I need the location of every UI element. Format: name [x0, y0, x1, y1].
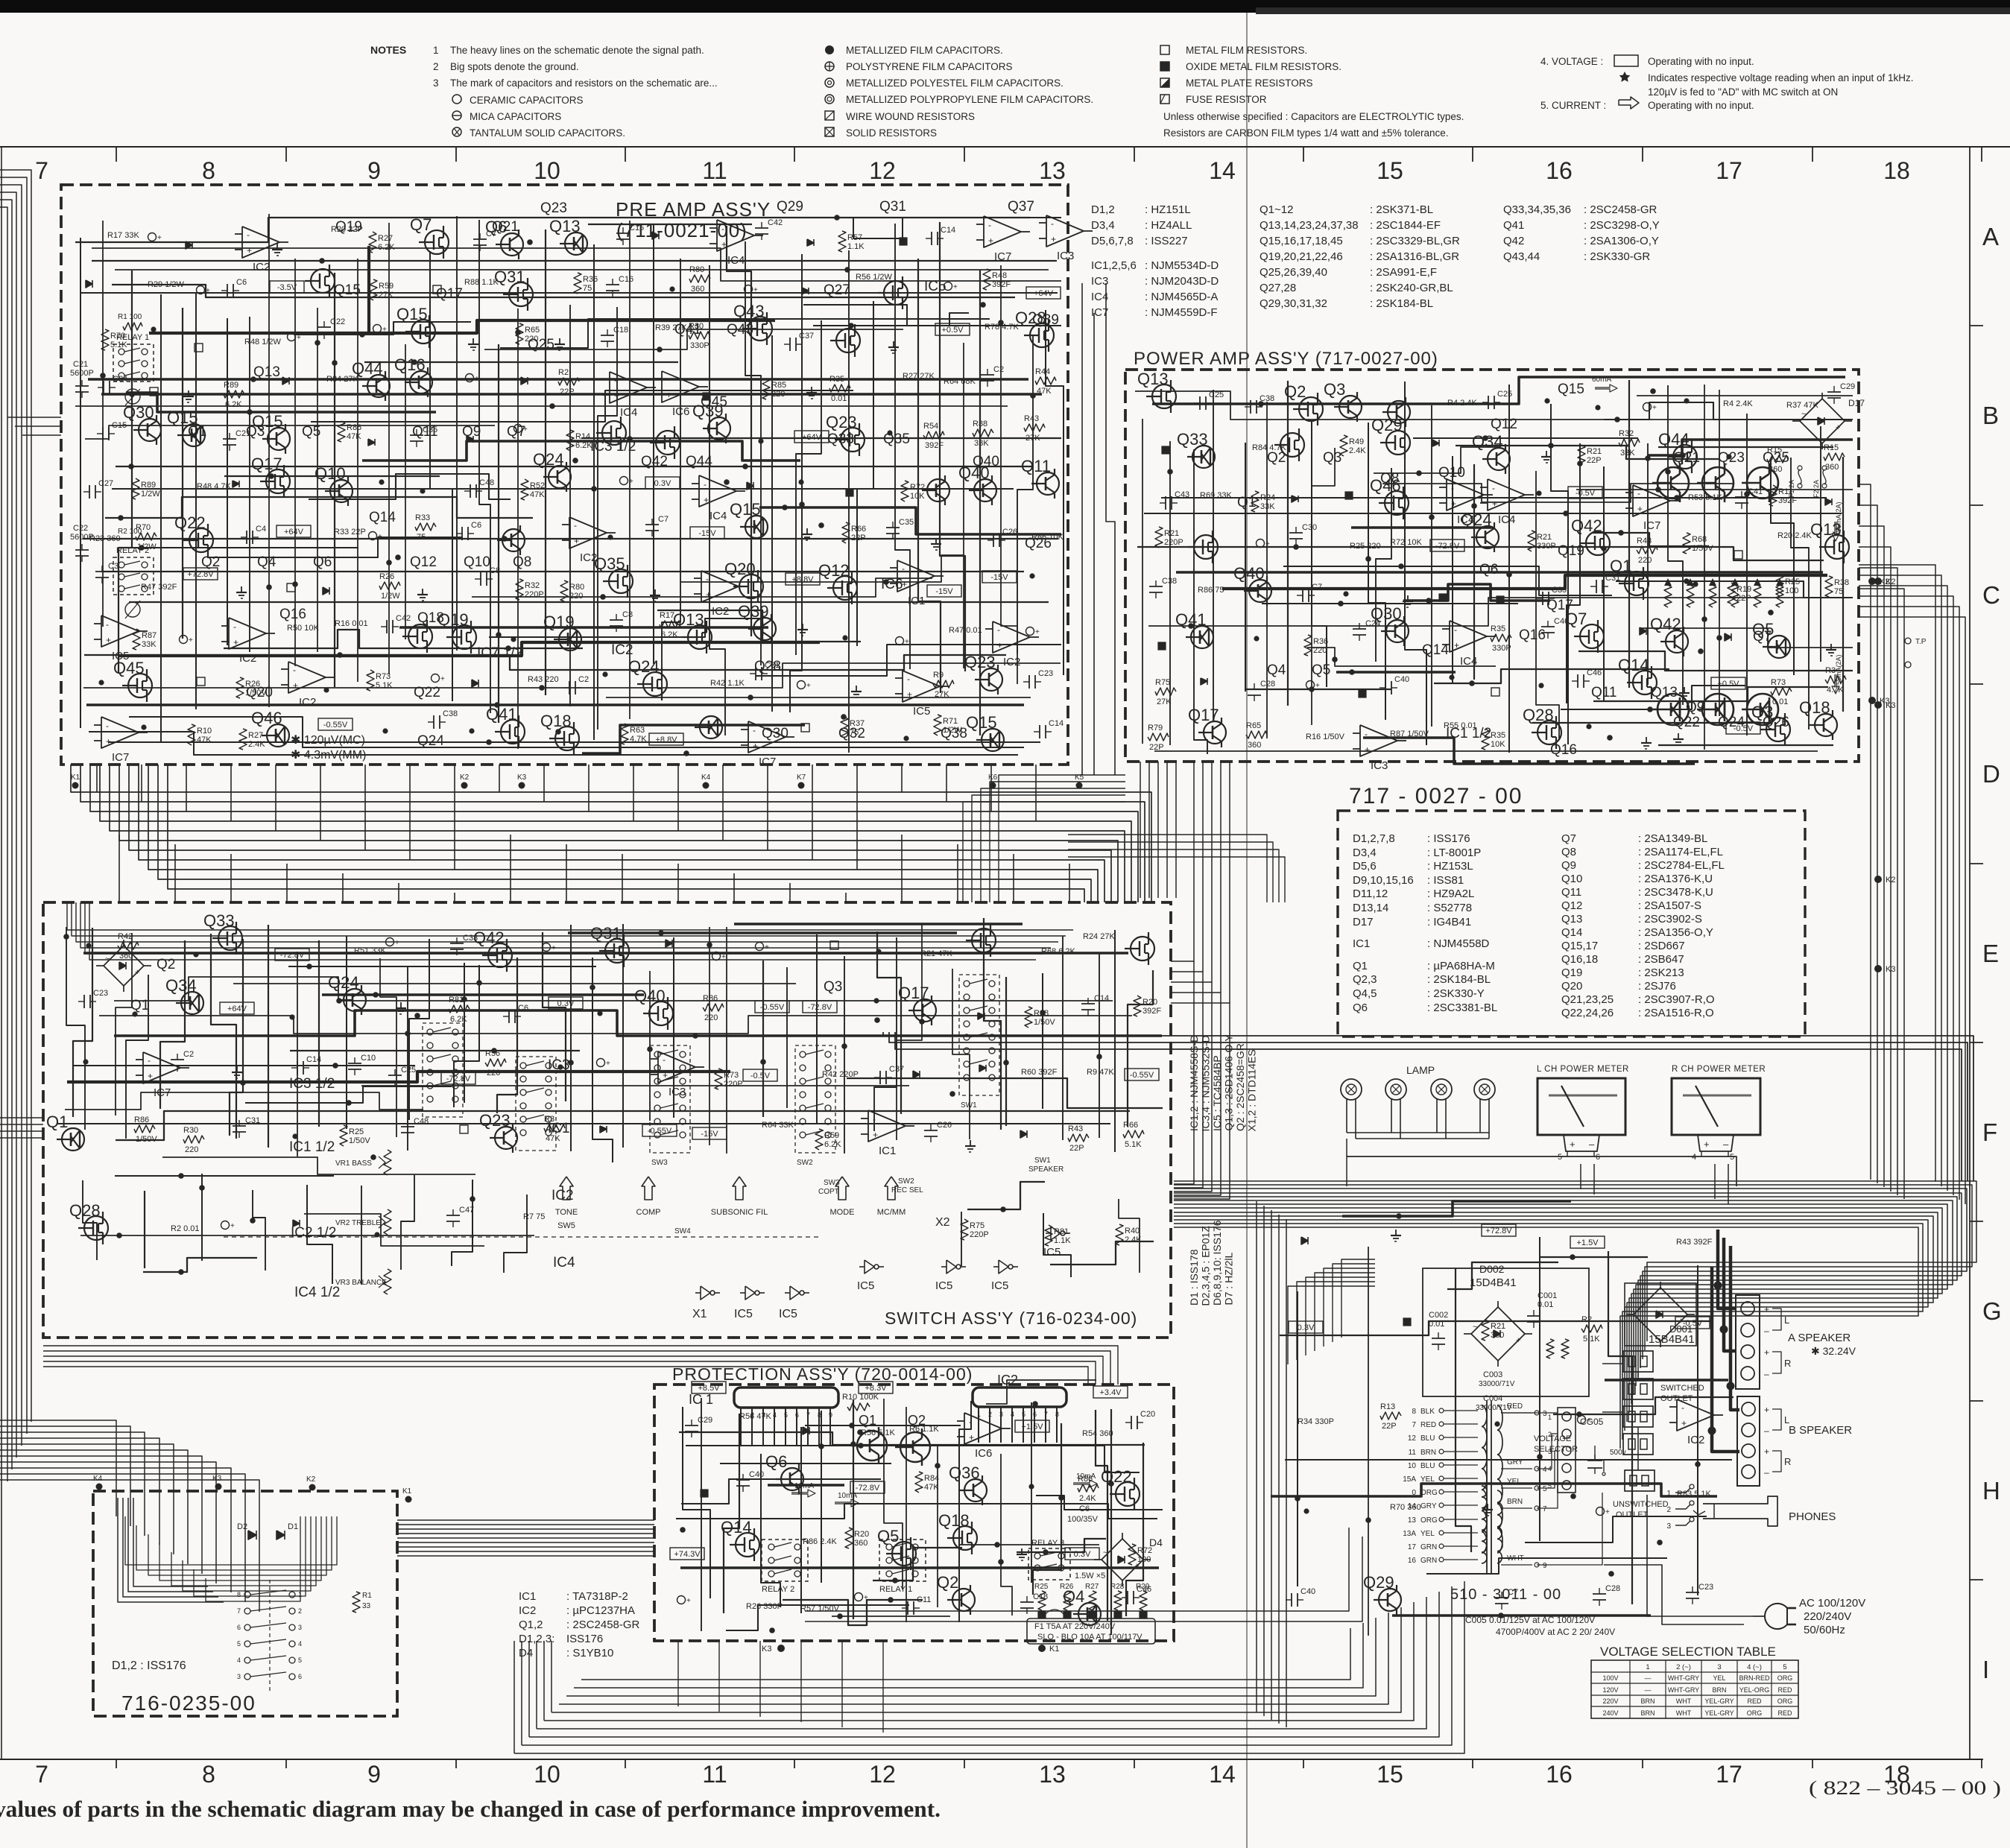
- svg-text:13: 13: [1408, 1516, 1417, 1525]
- wires between preamp and poweramp columns: [1081, 283, 1083, 775]
- resistor (texture): [1134, 996, 1141, 1016]
- svg-text:5: 5: [1543, 1485, 1547, 1493]
- ground (texture): [806, 528, 808, 534]
- resistor (texture): [566, 430, 574, 451]
- svg-text:C18: C18: [1033, 1592, 1048, 1601]
- svg-text:+64V: +64V: [284, 528, 304, 537]
- svg-text:220: 220: [1313, 646, 1327, 655]
- capacitor (texture): [1291, 1593, 1292, 1607]
- switch top edge rise stubs: [118, 835, 120, 902]
- svg-text:Q41: Q41: [1503, 219, 1524, 232]
- svg-text:D11,12: D11,12: [1353, 887, 1388, 900]
- svg-text:Q12: Q12: [1491, 417, 1517, 432]
- svg-text:~: ~: [105, 955, 110, 963]
- svg-text:IC4 1/2: IC4 1/2: [294, 1285, 340, 1300]
- resistor (texture): [1771, 688, 1792, 695]
- svg-text:-: -: [663, 1054, 666, 1065]
- svg-text:R70: R70: [136, 523, 151, 532]
- transistor (texture): [972, 928, 996, 952]
- transistor (texture): [502, 529, 525, 551]
- svg-text:R89: R89: [224, 381, 238, 390]
- svg-text:+0.5V: +0.5V: [941, 326, 964, 335]
- resistor (texture): [923, 431, 944, 439]
- svg-text:Q14: Q14: [1561, 926, 1582, 939]
- svg-text:-72.8V: -72.8V: [1435, 542, 1460, 551]
- transistor (texture): [311, 269, 335, 293]
- capacitor (texture): [1149, 586, 1163, 587]
- svg-text:2 (~): 2 (~): [1676, 1663, 1691, 1671]
- ground (texture): [1395, 1230, 1397, 1235]
- svg-text:Q46: Q46: [251, 709, 282, 727]
- transistor (texture): [183, 424, 205, 446]
- svg-text:22P: 22P: [1069, 1144, 1084, 1153]
- svg-text:C26: C26: [937, 1121, 952, 1130]
- svg-text:L CH POWER METER: L CH POWER METER: [1537, 1065, 1629, 1074]
- svg-text:13: 13: [1039, 157, 1066, 184]
- diode (texture): [368, 439, 375, 446]
- svg-text:R85: R85: [771, 381, 786, 390]
- svg-text:F1 T5A AT 220V/240V: F1 T5A AT 220V/240V: [1034, 1622, 1116, 1631]
- polarized cap (texture): [466, 374, 474, 382]
- svg-text:Unless otherwise specified : C: Unless otherwise specified : Capacitors …: [1163, 111, 1464, 122]
- junction dot: [420, 488, 425, 493]
- svg-text:R86: R86: [1078, 1475, 1093, 1484]
- svg-text:R81: R81: [1054, 1227, 1069, 1236]
- svg-text:R1 100: R1 100: [118, 313, 142, 321]
- svg-text:ORG: ORG: [1777, 1674, 1793, 1682]
- svg-text:Q30: Q30: [1371, 604, 1402, 623]
- svg-text:Q24: Q24: [533, 450, 564, 469]
- svg-text:+: +: [905, 638, 909, 646]
- diode (texture): [293, 1220, 300, 1227]
- svg-text:4.7K: 4.7K: [630, 735, 647, 744]
- svg-text:NOTES: NOTES: [370, 44, 406, 56]
- switch selector group SW1: [959, 975, 999, 1095]
- svg-text:220P: 220P: [724, 1080, 743, 1089]
- transistor (texture): [964, 1479, 987, 1501]
- svg-text:+: +: [614, 390, 619, 401]
- svg-text:Q17: Q17: [1546, 598, 1573, 613]
- junction dot: [1254, 636, 1259, 641]
- svg-text:IC1: IC1: [548, 1121, 570, 1136]
- polarized cap (texture): [797, 681, 806, 689]
- svg-text:+72.8V: +72.8V: [187, 570, 214, 579]
- svg-text:R47 392F: R47 392F: [141, 583, 177, 592]
- svg-text:+: +: [686, 1597, 691, 1605]
- svg-text:R78 4.7K: R78 4.7K: [985, 323, 1020, 332]
- svg-text:1.5W ×5: 1.5W ×5: [1075, 1572, 1105, 1580]
- svg-text:15A: 15A: [1403, 1475, 1416, 1484]
- transistor (texture): [753, 618, 776, 640]
- resistor (texture): [236, 677, 244, 698]
- svg-text:Q20: Q20: [724, 560, 756, 578]
- svg-text:27K: 27K: [379, 291, 394, 300]
- svg-text:✱ 32.24V: ✱ 32.24V: [1811, 1345, 1856, 1357]
- polarized cap (texture): [620, 477, 628, 485]
- voltage callout box: [276, 525, 311, 537]
- D001 frame: [1625, 1283, 1696, 1346]
- capacitor (texture): [789, 338, 791, 351]
- svg-text:Q27: Q27: [824, 282, 850, 298]
- transistor (texture): [708, 417, 730, 440]
- small square (texture): [703, 393, 710, 400]
- 716 box inner nested wires: [125, 1516, 337, 1565]
- svg-text:WHT-GRY: WHT-GRY: [1668, 1674, 1699, 1682]
- capacitor (texture): [1542, 592, 1543, 605]
- svg-text:Q21,23,25: Q21,23,25: [1561, 993, 1614, 1006]
- svg-text:Q18: Q18: [938, 1511, 970, 1530]
- svg-text:WHT-GRY: WHT-GRY: [1668, 1686, 1699, 1694]
- legend polypropylene cap: [825, 95, 834, 104]
- svg-text:: HZ4ALL: : HZ4ALL: [1145, 219, 1192, 232]
- svg-text:R79: R79: [1148, 724, 1163, 732]
- svg-text:Q33: Q33: [1177, 430, 1208, 449]
- svg-text:: 2SC2784-EL,FL: : 2SC2784-EL,FL: [1638, 859, 1725, 872]
- svg-text:R43: R43: [1637, 537, 1652, 545]
- svg-text:Q13: Q13: [1561, 913, 1582, 925]
- svg-text:IC2: IC2: [552, 1188, 574, 1203]
- regulator box: [1423, 1268, 1589, 1396]
- bottom ruler line: [0, 1759, 1982, 1760]
- svg-text:ISS176: ISS176: [566, 1633, 603, 1645]
- svg-text:5. CURRENT :: 5. CURRENT :: [1540, 100, 1606, 111]
- svg-text:K4: K4: [701, 773, 711, 782]
- resistor (texture): [660, 621, 680, 628]
- svg-text:The heavy lines on the schemat: The heavy lines on the schematic denote …: [450, 45, 704, 56]
- svg-text:75: 75: [583, 284, 592, 293]
- svg-text:Q6: Q6: [1353, 1001, 1368, 1014]
- svg-text:5.1K: 5.1K: [1125, 1140, 1142, 1149]
- legend metal plate res: [1160, 78, 1169, 87]
- svg-text:8: 8: [202, 157, 215, 184]
- svg-text:IC1: IC1: [908, 595, 925, 607]
- svg-text:G: G: [1982, 1297, 2002, 1325]
- svg-text:392F: 392F: [925, 441, 944, 450]
- capacitor (texture): [1495, 1597, 1508, 1598]
- svg-text:R84 27K: R84 27K: [326, 375, 358, 384]
- ground (texture): [241, 586, 242, 592]
- svg-text:H: H: [1982, 1477, 2000, 1504]
- capacitor (texture): [508, 1010, 510, 1023]
- svg-text:R25: R25: [349, 1127, 364, 1136]
- svg-text:4: 4: [237, 1656, 241, 1664]
- svg-text:100: 100: [1137, 1555, 1151, 1564]
- svg-text:R56 47K: R56 47K: [739, 1412, 771, 1421]
- svg-text:Q33: Q33: [827, 431, 854, 447]
- svg-text:: 2SB647: : 2SB647: [1638, 953, 1684, 966]
- svg-text:C46: C46: [1587, 668, 1602, 677]
- svg-text:K1: K1: [402, 1487, 412, 1496]
- svg-text:R25: R25: [1785, 577, 1800, 586]
- svg-text:+74.3V: +74.3V: [674, 1550, 701, 1559]
- svg-text:47K: 47K: [924, 1483, 939, 1492]
- svg-text:Q17: Q17: [1188, 706, 1219, 724]
- svg-text:D5,6,7,8: D5,6,7,8: [1091, 235, 1134, 247]
- svg-text:C18: C18: [613, 326, 628, 335]
- svg-text:BLU: BLU: [1420, 1462, 1435, 1470]
- svg-text:R27: R27: [1085, 1583, 1099, 1591]
- small square (texture): [433, 285, 441, 294]
- svg-text:+: +: [1265, 540, 1270, 548]
- heavy signal path preamp lower: [119, 642, 820, 656]
- svg-text:A SPEAKER: A SPEAKER: [1788, 1332, 1851, 1344]
- small square (texture): [1439, 594, 1447, 601]
- resistor (texture): [1619, 439, 1640, 446]
- svg-text:R35: R35: [1491, 731, 1505, 740]
- small square (texture): [1359, 690, 1366, 697]
- svg-text:+: +: [1454, 640, 1459, 651]
- svg-text:POWER AMP ASS'Y (717-0027-00): POWER AMP ASS'Y (717-0027-00): [1134, 349, 1438, 369]
- resistor (texture): [845, 1528, 853, 1548]
- svg-text:C43: C43: [1175, 490, 1189, 499]
- svg-text:Q17: Q17: [251, 455, 282, 473]
- junction dot: [669, 286, 674, 291]
- poweramp K dots right side: [1868, 577, 1876, 585]
- svg-text:RED: RED: [1777, 1709, 1792, 1717]
- svg-text:IC2: IC2: [519, 1604, 536, 1617]
- protection relay2 box: [762, 1540, 808, 1581]
- resistor (texture): [1728, 583, 1735, 604]
- transistor (texture): [425, 230, 449, 254]
- svg-text:C25: C25: [1209, 390, 1224, 399]
- svg-text:Q31: Q31: [590, 924, 622, 943]
- svg-text:6.2K: 6.2K: [450, 1015, 467, 1024]
- svg-text:-0.5V: -0.5V: [750, 1072, 771, 1080]
- svg-text:R26 330P: R26 330P: [746, 1602, 783, 1611]
- svg-text:5: 5: [1730, 1153, 1734, 1162]
- svg-text:4 (~): 4 (~): [1747, 1663, 1762, 1671]
- bundle meters to band: [1580, 1164, 1581, 1189]
- svg-text:C14: C14: [941, 226, 955, 235]
- junction dot: [141, 724, 146, 730]
- transistor (texture): [643, 672, 667, 696]
- junction dot: [289, 1014, 294, 1019]
- capacitor (texture): [246, 531, 247, 544]
- protection circuit wires horizontal: [986, 1380, 1096, 1404]
- svg-text:+: +: [1051, 234, 1056, 244]
- svg-text:13: 13: [1039, 1761, 1066, 1788]
- svg-text:C40: C40: [749, 1470, 764, 1479]
- svg-text:1: 1: [433, 45, 439, 56]
- voltage callout box: [1568, 487, 1602, 499]
- capacitor (texture): [317, 326, 331, 328]
- bridge D002: [1471, 1307, 1525, 1361]
- svg-text:220: 220: [569, 592, 583, 601]
- svg-text:C28: C28: [1605, 1584, 1620, 1593]
- svg-text:-: -: [969, 1417, 972, 1427]
- svg-text:R65: R65: [1246, 721, 1261, 730]
- svg-text:Q15: Q15: [730, 500, 761, 519]
- svg-text:K1: K1: [1049, 1645, 1059, 1654]
- voltage callout box: [183, 568, 218, 580]
- svg-text:+: +: [721, 239, 727, 250]
- svg-text:R69 33K: R69 33K: [1200, 491, 1232, 500]
- svg-text:Q6: Q6: [1479, 562, 1498, 577]
- svg-text:Q14: Q14: [1422, 642, 1449, 658]
- svg-text:Q42: Q42: [1650, 615, 1681, 633]
- svg-text:IC5: IC5: [779, 1308, 797, 1320]
- switch box top nested wires: [67, 902, 1073, 930]
- svg-text:OXIDE METAL FILM RESISTORS.: OXIDE METAL FILM RESISTORS.: [1186, 61, 1341, 72]
- svg-text:Q6: Q6: [313, 554, 332, 570]
- resistor (texture): [521, 479, 528, 500]
- transistor (texture): [833, 576, 857, 600]
- svg-text:+: +: [706, 589, 711, 600]
- svg-text:Q23: Q23: [540, 200, 567, 216]
- svg-text:R54: R54: [923, 422, 938, 431]
- svg-text:K2: K2: [1886, 577, 1895, 586]
- svg-text:Q1: Q1: [1237, 495, 1256, 510]
- capacitor (texture): [1131, 1416, 1132, 1429]
- polarized cap (texture): [197, 286, 205, 294]
- svg-text:Operating with no input.: Operating with no input.: [1648, 56, 1754, 67]
- diode (texture): [186, 241, 192, 249]
- junction dot: [1726, 454, 1731, 459]
- transistor (texture): [1131, 937, 1154, 961]
- diode (texture): [802, 288, 809, 294]
- svg-text:+: +: [1652, 404, 1657, 412]
- svg-text:—: —: [1645, 1674, 1652, 1682]
- svg-text:-: -: [1051, 218, 1054, 229]
- svg-text:1/50V: 1/50V: [349, 1136, 370, 1145]
- svg-text:R3: R3: [1825, 666, 1836, 675]
- svg-text:Q15: Q15: [966, 713, 997, 732]
- svg-text:C28: C28: [1260, 680, 1275, 689]
- resistor (texture): [485, 1059, 506, 1066]
- resistor (texture): [1078, 1484, 1099, 1492]
- svg-text:K3: K3: [212, 1475, 222, 1483]
- svg-text:BRN: BRN: [1712, 1686, 1726, 1694]
- svg-text:12: 12: [869, 157, 896, 184]
- svg-text:K2: K2: [306, 1475, 316, 1484]
- capacitor (texture): [223, 438, 236, 440]
- ground (texture): [236, 1066, 238, 1072]
- svg-text:R43: R43: [1068, 1124, 1083, 1133]
- svg-text:-: -: [902, 563, 905, 574]
- svg-text:C38: C38: [1162, 577, 1177, 586]
- svg-text:-15V: -15V: [935, 587, 953, 596]
- capacitor (texture): [606, 284, 619, 285]
- diode (texture): [467, 436, 473, 443]
- svg-text:33K: 33K: [1620, 449, 1635, 458]
- transistor (texture): [781, 1468, 803, 1490]
- svg-text:C4: C4: [256, 525, 266, 534]
- svg-text:LAMP: LAMP: [1406, 1064, 1435, 1076]
- 716 R1 resistor: [353, 1592, 360, 1613]
- svg-text:: 2SC3902-S: : 2SC3902-S: [1638, 913, 1702, 925]
- resistor (texture): [118, 942, 139, 949]
- TP terminal: [1905, 638, 1911, 644]
- svg-text:33K: 33K: [974, 439, 989, 448]
- polarized cap (texture): [543, 943, 551, 952]
- svg-text:Q25,26,39,40: Q25,26,39,40: [1260, 266, 1327, 279]
- transistor (texture): [1625, 572, 1649, 595]
- voltage callout box: [1015, 1420, 1049, 1432]
- svg-text:14: 14: [1209, 157, 1236, 184]
- svg-text:IC4: IC4: [620, 406, 637, 419]
- resistor (texture): [134, 1125, 155, 1133]
- svg-text:120µV is fed to "AD" with MC s: 120µV is fed to "AD" with MC switch at O…: [1648, 86, 1838, 98]
- svg-text:R54 360: R54 360: [1082, 1429, 1113, 1438]
- svg-text:AC 100/120V: AC 100/120V: [1799, 1597, 1865, 1610]
- svg-text:: 2SC3907-R,O: : 2SC3907-R,O: [1638, 993, 1715, 1006]
- svg-text:27K: 27K: [1157, 697, 1172, 706]
- svg-text:R24 27K: R24 27K: [1083, 932, 1115, 941]
- svg-text:values of parts in the schemat: values of parts in the schematic diagram…: [0, 1796, 941, 1822]
- capacitor (texture): [171, 1059, 184, 1060]
- svg-text:R42: R42: [118, 932, 133, 941]
- svg-text:BRN: BRN: [1640, 1697, 1655, 1705]
- diode (texture): [600, 1126, 607, 1133]
- transistor (texture): [1280, 433, 1304, 457]
- transistor (texture): [1537, 721, 1561, 744]
- svg-text:R6 1.1K: R6 1.1K: [909, 1425, 939, 1434]
- svg-text:SLO - BLO 10A AT 100/117V: SLO - BLO 10A AT 100/117V: [1037, 1633, 1143, 1642]
- op-amp (texture): [229, 618, 266, 649]
- svg-text:R42 220P: R42 220P: [822, 1070, 859, 1079]
- capacitor (texture): [388, 1075, 402, 1076]
- capacitor (texture): [1596, 580, 1597, 593]
- svg-text:R14: R14: [575, 432, 590, 441]
- transistor (texture): [181, 992, 203, 1014]
- svg-text:RED: RED: [1507, 1402, 1523, 1411]
- svg-text:1.1K: 1.1K: [847, 242, 865, 251]
- svg-text:3: 3: [237, 1673, 241, 1680]
- svg-text:IC3: IC3: [1057, 250, 1074, 262]
- svg-text:Q1~12: Q1~12: [1260, 203, 1293, 216]
- op-amp (texture): [903, 671, 940, 702]
- svg-text:TANTALUM SOLID CAPACITORS.: TANTALUM SOLID CAPACITORS.: [470, 127, 625, 139]
- svg-text:SOLID RESISTORS: SOLID RESISTORS: [846, 127, 937, 139]
- svg-text:C14: C14: [1049, 719, 1064, 728]
- junction dot: [758, 438, 763, 443]
- junction dot: [1544, 398, 1549, 403]
- transistor (texture): [218, 926, 242, 950]
- svg-text:C26: C26: [1002, 528, 1017, 537]
- svg-text:220: 220: [771, 390, 785, 399]
- svg-text:+64V: +64V: [1034, 289, 1054, 298]
- svg-text:Q33,34,35,36: Q33,34,35,36: [1503, 203, 1571, 216]
- svg-text:R73: R73: [1771, 678, 1786, 687]
- legend solid res: [825, 127, 834, 136]
- svg-text:Q41: Q41: [1175, 610, 1207, 629]
- svg-text:Q25: Q25: [1763, 450, 1789, 466]
- svg-text:: ISS227: : ISS227: [1145, 235, 1188, 247]
- svg-text:100V: 100V: [1602, 1674, 1618, 1682]
- svg-text:+8.5V: +8.5V: [698, 1384, 720, 1393]
- svg-text:D17: D17: [1848, 398, 1865, 408]
- voltage callout box: [1065, 1548, 1099, 1560]
- svg-text:R27: R27: [378, 234, 393, 243]
- svg-text:Q14: Q14: [1618, 656, 1649, 674]
- svg-text:+: +: [552, 944, 556, 952]
- svg-text:: LT-8001P: : LT-8001P: [1427, 847, 1481, 859]
- C005 cap: [1587, 1460, 1602, 1461]
- resistor (texture): [715, 1069, 722, 1089]
- svg-text:Q19: Q19: [543, 613, 575, 631]
- voltage callout box: [220, 1002, 254, 1014]
- resistor (texture): [415, 523, 436, 531]
- svg-text:360: 360: [691, 285, 704, 294]
- svg-text:WHT: WHT: [1676, 1697, 1692, 1705]
- protection R10 100K: [847, 1403, 870, 1411]
- svg-text:Q19: Q19: [1561, 966, 1582, 979]
- voltage callout box: [270, 281, 304, 293]
- lamp L1: [1341, 1079, 1362, 1100]
- svg-text:17: 17: [1716, 1761, 1742, 1788]
- svg-text:C31: C31: [245, 1116, 260, 1125]
- bundle right of switch box verticals: [1174, 961, 1194, 1184]
